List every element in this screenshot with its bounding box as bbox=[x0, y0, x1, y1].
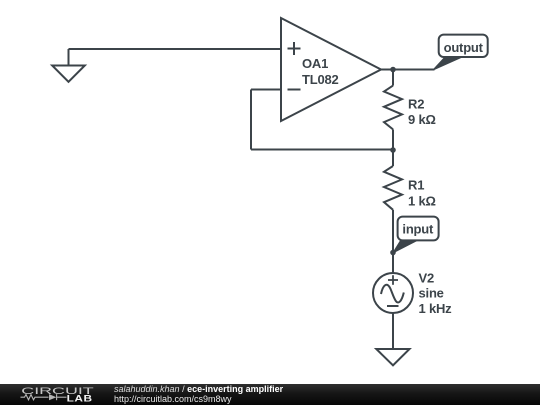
op-amp OA1 plus pin symbol bbox=[288, 42, 301, 55]
svg-text:output: output bbox=[444, 40, 484, 55]
flag output bbox=[433, 35, 488, 70]
flag input bbox=[393, 217, 439, 253]
op-amp OA1 bbox=[281, 18, 381, 121]
wire output bbox=[381, 69, 435, 71]
svg-text:R1: R1 bbox=[408, 178, 424, 193]
op-amp OA1 minus pin symbol bbox=[288, 89, 301, 91]
node input junction bbox=[390, 250, 396, 256]
wire non-inverting input bbox=[69, 48, 282, 50]
V2 sine wave bbox=[381, 285, 404, 303]
svg-text:V2: V2 bbox=[419, 270, 435, 285]
ground GND1 bbox=[52, 49, 85, 82]
node output junction bbox=[390, 67, 396, 73]
V2 plus sign bbox=[388, 275, 398, 285]
footer text bbox=[114, 385, 283, 404]
wire R1 top stub bbox=[392, 150, 394, 166]
footer bar bbox=[0, 384, 540, 405]
svg-text:LAB: LAB bbox=[67, 395, 93, 404]
wire R2 bottom stub bbox=[392, 129, 394, 150]
resistor R1 bbox=[384, 166, 402, 210]
wire feedback vertical bbox=[250, 90, 252, 150]
svg-text:input: input bbox=[402, 222, 434, 237]
svg-text:OA1: OA1 bbox=[302, 56, 328, 71]
wire feedback horizontal bbox=[251, 149, 393, 151]
svg-text:TL082: TL082 bbox=[302, 72, 339, 87]
V2 minus sign bbox=[387, 305, 399, 307]
svg-text:R2: R2 bbox=[408, 96, 424, 111]
wire inverting input bbox=[251, 89, 281, 91]
svg-text:sine: sine bbox=[419, 286, 444, 301]
wire R2 top stub bbox=[392, 70, 394, 86]
CircuitLab logo bbox=[20, 384, 114, 405]
svg-text:1 kΩ: 1 kΩ bbox=[408, 193, 436, 208]
svg-text:9 kΩ: 9 kΩ bbox=[408, 112, 436, 127]
node feedback junction bbox=[390, 147, 396, 153]
resistor R2 bbox=[384, 86, 402, 130]
wire input node to V2 bbox=[392, 253, 394, 274]
svg-text:1 kHz: 1 kHz bbox=[419, 301, 453, 316]
wire R1 to input node bbox=[392, 210, 394, 253]
ground GND2 bbox=[376, 349, 409, 365]
wire V2 to ground bbox=[392, 313, 394, 349]
voltage source V2 bbox=[373, 273, 413, 313]
